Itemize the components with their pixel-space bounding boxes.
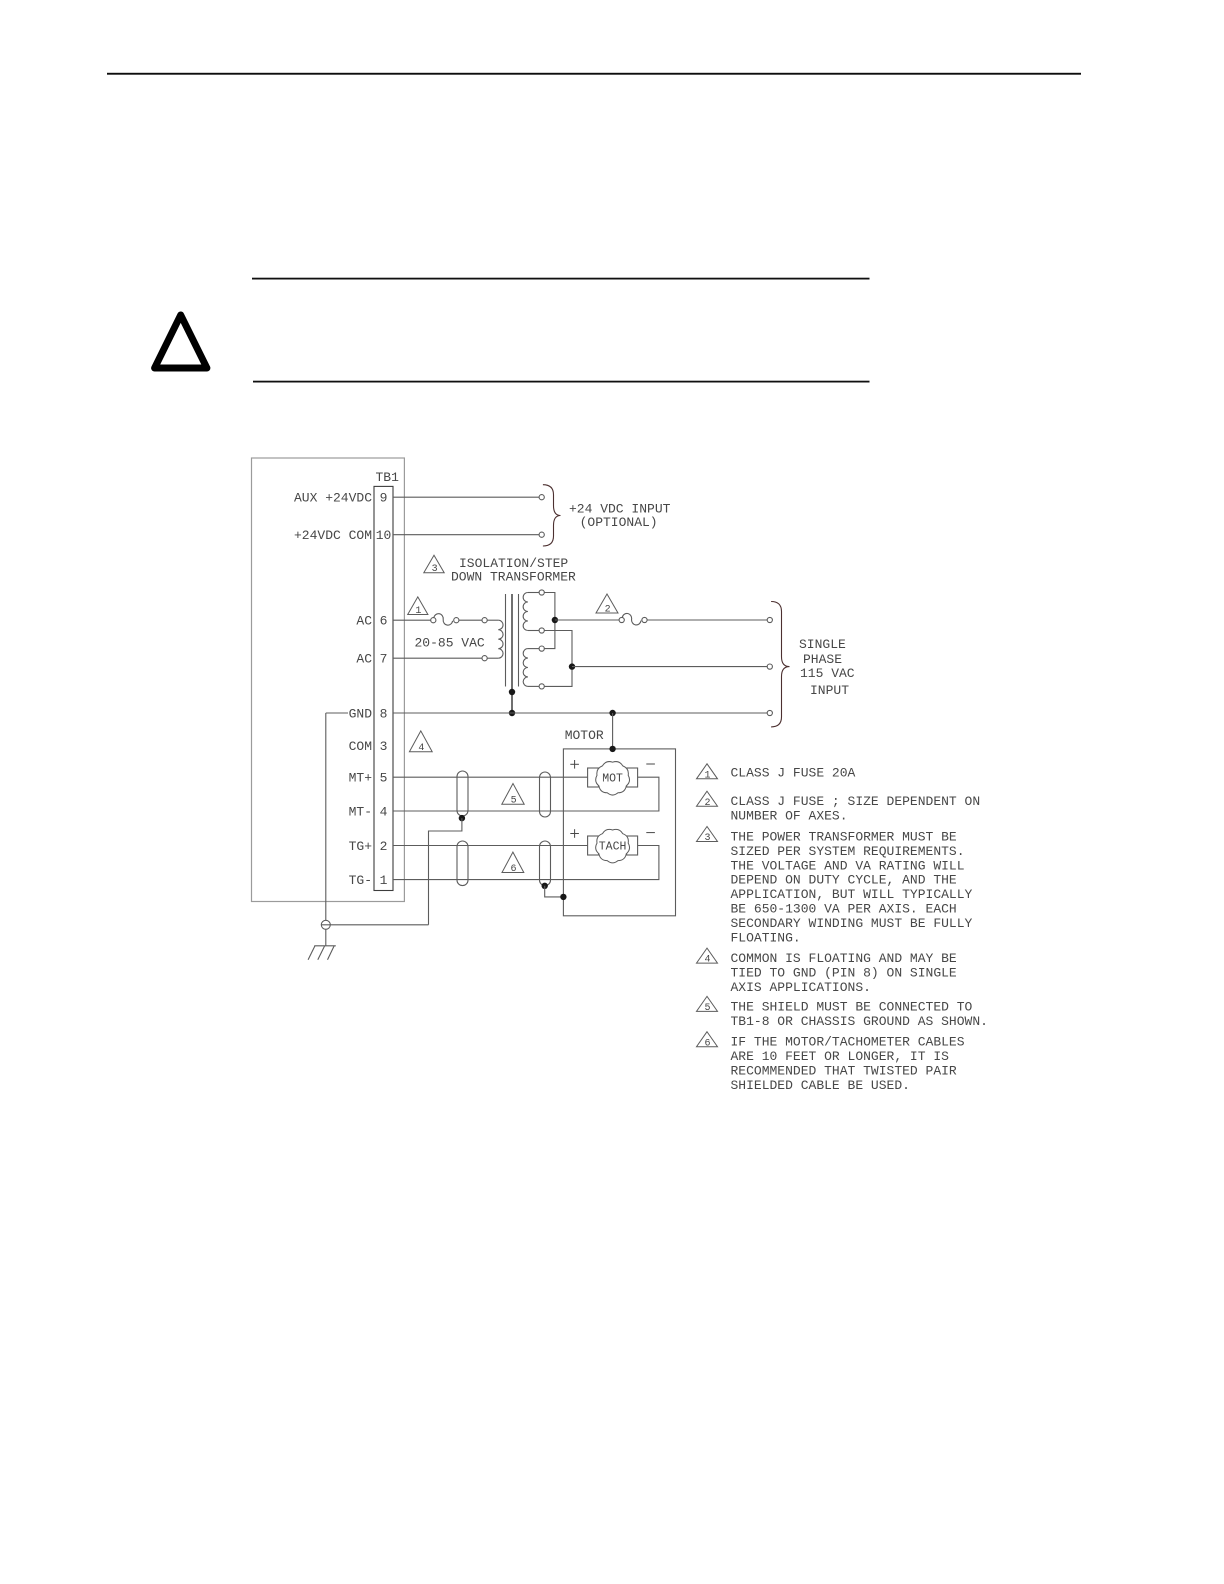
- tach body: [596, 829, 630, 862]
- transformer secondary winding lower: [523, 649, 539, 687]
- chassis stud circle: [321, 920, 330, 929]
- wire MT+ pin 5 to motor: [393, 776, 588, 778]
- svg-text:AC: AC: [356, 614, 372, 629]
- warning box bottom rule: [253, 381, 870, 383]
- svg-text:MT-: MT-: [349, 804, 372, 819]
- svg-text:(OPTIONAL): (OPTIONAL): [580, 515, 658, 530]
- junction dot motor frame top: [609, 746, 615, 752]
- junction dot TG shield: [542, 883, 548, 889]
- svg-text:TG-: TG-: [349, 873, 372, 888]
- wire 115VAC input line 2: [572, 666, 767, 668]
- transformer primary terminal circles: [482, 618, 487, 623]
- wire MT shield drain: [429, 818, 462, 925]
- triangle label 4 (COM note): [409, 731, 432, 752]
- secondary terminal circles: [539, 590, 544, 689]
- wire GND down to chassis: [325, 713, 327, 920]
- motor outline box: [563, 749, 675, 916]
- shield oval MT left: [457, 771, 468, 816]
- svg-text:6: 6: [704, 1038, 710, 1049]
- junction dot secondary hot: [552, 617, 558, 623]
- svg-text:1: 1: [415, 606, 421, 617]
- tach brush right: [627, 836, 638, 855]
- svg-text:PHASE: PHASE: [803, 652, 842, 667]
- svg-text:2: 2: [704, 798, 710, 809]
- drive enclosure outline: [252, 458, 405, 902]
- junction dot secondary return: [569, 663, 575, 669]
- svg-text:20-85 VAC: 20-85 VAC: [415, 636, 485, 651]
- svg-text:BE 650-1300 VA PER AXIS. EACH: BE 650-1300 VA PER AXIS. EACH: [731, 902, 957, 917]
- wire TG shield drain to motor frame: [545, 886, 564, 897]
- wire stud to ground symbol: [325, 929, 327, 946]
- note triangle 6: [697, 1032, 718, 1047]
- svg-text:8: 8: [380, 706, 388, 721]
- note 3 text: [731, 830, 973, 946]
- svg-text:TB1-8 OR CHASSIS GROUND AS SHO: TB1-8 OR CHASSIS GROUND AS SHOWN.: [731, 1014, 988, 1029]
- svg-text:7: 7: [380, 652, 388, 667]
- svg-text:1: 1: [704, 770, 710, 781]
- terminal circle pin 9 wire end: [539, 495, 544, 500]
- svg-text:AC: AC: [356, 652, 372, 667]
- triangle label 6 (twisted pair note): [502, 852, 524, 872]
- svg-text:2: 2: [380, 839, 388, 854]
- motor MOT brush left: [588, 768, 599, 787]
- svg-text:IF THE MOTOR/TACHOMETER CABLES: IF THE MOTOR/TACHOMETER CABLES: [731, 1035, 965, 1050]
- svg-text:MT+: MT+: [349, 771, 373, 786]
- transformer primary winding: [487, 620, 503, 658]
- tach polarity minus: [646, 832, 655, 834]
- svg-text:GND: GND: [349, 706, 373, 721]
- svg-text:5: 5: [704, 1003, 710, 1014]
- brace +24 VDC input: [543, 485, 561, 546]
- GND rail pin 8: [393, 712, 767, 714]
- wire motor minus return: [393, 777, 659, 811]
- triangle label 2 (fuse F2 note): [596, 594, 618, 613]
- svg-text:MOT: MOT: [602, 773, 623, 786]
- svg-text:CLASS J FUSE ; SIZE DEPENDENT: CLASS J FUSE ; SIZE DEPENDENT ON: [731, 794, 981, 809]
- shield oval TG left: [457, 841, 468, 886]
- svg-text:FLOATING.: FLOATING.: [731, 930, 801, 945]
- transformer secondary winding upper: [523, 593, 539, 631]
- chassis ground symbol: [308, 946, 336, 960]
- note triangle 2: [697, 791, 718, 806]
- svg-text:10: 10: [376, 528, 392, 543]
- transformer shield line to GND: [511, 594, 513, 713]
- junction dot GND rail to motor: [609, 710, 615, 716]
- wire tach minus return: [393, 846, 659, 880]
- svg-text:TIED TO GND (PIN 8) ON SINGLE: TIED TO GND (PIN 8) ON SINGLE: [731, 966, 957, 981]
- secondary bus wires: [544, 593, 572, 687]
- note 5 text: [731, 999, 988, 1028]
- transformer core: [506, 594, 519, 687]
- svg-text:MOTOR: MOTOR: [565, 728, 604, 743]
- note 1 text: [731, 766, 856, 781]
- wire pin 9 to +24VDC input terminal: [393, 496, 539, 498]
- brace single phase input: [771, 602, 789, 727]
- svg-text:4: 4: [704, 955, 710, 966]
- svg-text:RECOMMENDED THAT TWISTED PAIR: RECOMMENDED THAT TWISTED PAIR: [731, 1064, 957, 1079]
- tach polarity plus: [570, 829, 579, 838]
- motor MOT brush right: [627, 768, 638, 787]
- svg-text:THE SHIELD MUST BE CONNECTED T: THE SHIELD MUST BE CONNECTED TO: [731, 999, 973, 1014]
- terminal circle pin 10 wire end: [539, 532, 544, 537]
- svg-text:6: 6: [510, 864, 516, 875]
- note 2 text: [731, 794, 981, 823]
- junction dot MT shield: [459, 815, 465, 821]
- triangle label 3 (transformer note): [424, 555, 444, 573]
- svg-text:3: 3: [704, 833, 710, 844]
- svg-text:115 VAC: 115 VAC: [800, 666, 855, 681]
- junction dot motor frame left: [560, 894, 566, 900]
- wire pin 7 to transformer primary: [393, 657, 482, 659]
- wire secondary to fuse F2: [555, 619, 619, 621]
- svg-text:4: 4: [418, 743, 424, 754]
- svg-text:AUX +24VDC: AUX +24VDC: [294, 491, 372, 506]
- note triangle 1: [697, 764, 718, 779]
- shield oval TG right: [540, 841, 551, 886]
- note 6 text: [731, 1035, 965, 1093]
- svg-text:TACH: TACH: [599, 840, 627, 853]
- terminal block TB1 body: [374, 486, 393, 890]
- wire pin 10 to +24VDC COM input terminal: [393, 534, 539, 536]
- svg-text:THE POWER TRANSFORMER MUST BE: THE POWER TRANSFORMER MUST BE: [731, 830, 957, 845]
- wire pin 6 to fuse F1: [393, 619, 431, 621]
- junction dot shield at GND rail: [509, 710, 515, 716]
- warning box top rule: [252, 278, 870, 280]
- junction dot shield line: [509, 689, 515, 695]
- svg-text:5: 5: [380, 771, 388, 786]
- page header rule: [107, 73, 1081, 75]
- svg-text:NUMBER OF AXES.: NUMBER OF AXES.: [731, 809, 848, 824]
- motor MOT polarity plus: [570, 760, 579, 769]
- svg-text:AXIS APPLICATIONS.: AXIS APPLICATIONS.: [731, 980, 871, 995]
- 115VAC input terminal circles: [767, 617, 772, 715]
- triangle label 1 (fuse F1 note): [408, 597, 428, 615]
- svg-text:COMMON IS FLOATING AND MAY BE: COMMON IS FLOATING AND MAY BE: [731, 951, 957, 966]
- warning triangle symbol: [155, 315, 207, 368]
- note triangle 5: [697, 996, 718, 1011]
- fuse F1: [431, 614, 459, 625]
- svg-text:2: 2: [605, 605, 611, 616]
- fuse F2: [619, 613, 647, 624]
- svg-text:SECONDARY WINDING MUST BE FULL: SECONDARY WINDING MUST BE FULLY: [731, 916, 973, 931]
- note 4 text: [731, 951, 957, 995]
- wire GND label link: [326, 712, 348, 714]
- note triangle 4: [697, 948, 718, 963]
- svg-text:1: 1: [380, 873, 388, 888]
- svg-text:+24VDC COM: +24VDC COM: [294, 528, 372, 543]
- svg-text:5: 5: [511, 796, 517, 807]
- svg-text:9: 9: [380, 491, 388, 506]
- note triangle 3: [697, 827, 718, 842]
- svg-text:COM: COM: [349, 739, 372, 754]
- svg-text:3: 3: [432, 564, 438, 575]
- svg-text:6: 6: [380, 614, 388, 629]
- svg-text:ARE 10 FEET OR LONGER, IT IS: ARE 10 FEET OR LONGER, IT IS: [731, 1049, 950, 1064]
- svg-text:3: 3: [380, 739, 388, 754]
- motor MOT body: [596, 762, 630, 795]
- svg-text:THE VOLTAGE AND VA RATING WILL: THE VOLTAGE AND VA RATING WILL: [731, 858, 965, 873]
- svg-text:DOWN TRANSFORMER: DOWN TRANSFORMER: [451, 570, 576, 585]
- svg-text:APPLICATION, BUT WILL TYPICALL: APPLICATION, BUT WILL TYPICALLY: [731, 887, 973, 902]
- svg-text:TG+: TG+: [349, 839, 373, 854]
- wire shield bus to chassis stud: [321, 924, 428, 926]
- svg-text:INPUT: INPUT: [810, 683, 849, 698]
- svg-text:4: 4: [380, 804, 388, 819]
- wire TG+ pin 2 to tach: [393, 845, 588, 847]
- wire fuse F1 to transformer primary: [459, 619, 482, 621]
- wire fuse F2 to 115VAC input line 1: [647, 619, 767, 621]
- tach brush left: [588, 836, 599, 855]
- wire GND rail to motor frame: [612, 713, 614, 749]
- svg-text:CLASS J FUSE 20A: CLASS J FUSE 20A: [731, 766, 856, 781]
- shield oval MT right: [540, 772, 551, 817]
- motor MOT polarity minus: [646, 763, 655, 765]
- svg-text:TB1: TB1: [376, 470, 400, 485]
- triangle label 5 (shield note): [502, 784, 524, 805]
- svg-text:SIZED PER SYSTEM REQUIREMENTS.: SIZED PER SYSTEM REQUIREMENTS.: [731, 844, 965, 859]
- svg-text:DEPEND ON DUTY CYCLE, AND THE: DEPEND ON DUTY CYCLE, AND THE: [731, 873, 957, 888]
- svg-text:SINGLE: SINGLE: [799, 637, 846, 652]
- svg-text:SHIELDED CABLE BE USED.: SHIELDED CABLE BE USED.: [731, 1078, 910, 1093]
